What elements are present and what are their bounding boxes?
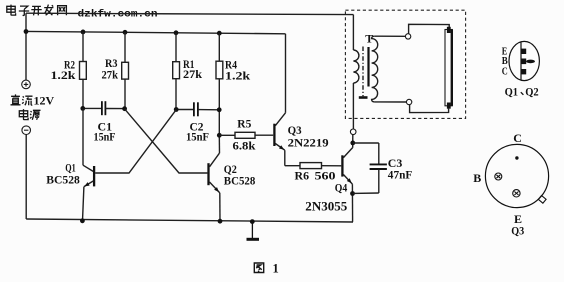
svg-text:15nF: 15nF	[94, 130, 116, 144]
transformer core shield bar	[359, 96, 368, 99]
transformer core dash-dot line	[362, 47, 364, 97]
svg-text:R5: R5	[237, 117, 251, 131]
transformer primary winding	[353, 15, 359, 129]
transistor Q2 (BC528, faces right)	[209, 135, 256, 221]
terminal secondary top	[405, 34, 410, 39]
wire supply vertical bottom	[25, 135, 27, 220]
svg-text:47nF: 47nF	[388, 167, 413, 181]
caption 图 1	[254, 263, 263, 273]
node rail left corner	[24, 29, 29, 34]
svg-text:1: 1	[273, 261, 279, 275]
resistor R2	[51, 32, 87, 109]
svg-text:27k: 27k	[183, 67, 202, 81]
node C1 right	[122, 106, 127, 111]
terminal primary bottom	[350, 129, 356, 135]
TO-3 collector dot	[515, 156, 518, 159]
node ground tap	[250, 219, 255, 224]
svg-text:2N3055: 2N3055	[305, 200, 347, 214]
TO-3 base pin	[495, 173, 502, 180]
dashed transformer box	[345, 10, 465, 118]
svg-text:560: 560	[315, 169, 336, 183]
node C3 top tap	[350, 141, 355, 146]
svg-text:12V: 12V	[34, 94, 55, 108]
wire supply vertical top	[25, 13, 27, 80]
resistor R3	[102, 32, 129, 108]
svg-text:C: C	[513, 131, 522, 145]
battery minus terminal	[22, 126, 31, 135]
svg-text:1.2k: 1.2k	[225, 68, 251, 82]
wire transformer primary bottom to Q4 collector	[352, 135, 354, 148]
svg-text:1.2k: 1.2k	[51, 68, 76, 82]
battery plus terminal	[22, 80, 31, 89]
TO-3 emitter pin	[513, 190, 520, 197]
node C3 bottom tap	[350, 191, 355, 196]
svg-text:B: B	[473, 171, 481, 185]
terminal secondary bottom	[406, 99, 411, 104]
node rail R3	[123, 30, 128, 35]
wire cross-coupling C1right to Q2 base	[125, 109, 208, 173]
node C2 right	[217, 107, 222, 112]
wire top feed line (through watermark) to transformer	[26, 13, 353, 14]
transformer core solid bar	[367, 47, 369, 87]
svg-text:Q3: Q3	[511, 223, 524, 237]
capacitor C1	[83, 101, 125, 143]
transistor Q4 (2N3055)	[305, 148, 352, 222]
svg-text:C: C	[502, 66, 508, 78]
pinout TO-3 Q3	[485, 144, 548, 207]
capacitor C2	[176, 102, 219, 143]
pinout TO-92 Q1 Q2	[509, 41, 539, 80]
svg-text:15nF: 15nF	[186, 130, 209, 144]
node rail R2	[81, 30, 86, 35]
lamp tube	[445, 27, 452, 109]
TO-92 pins	[521, 49, 535, 75]
svg-text:6.8k: 6.8k	[233, 138, 256, 152]
capacitor C3	[353, 143, 413, 193]
top rail	[26, 31, 286, 33]
node rail R1	[174, 30, 179, 35]
svg-text:Q1: Q1	[505, 85, 518, 99]
node C2 left	[174, 107, 179, 112]
resistor R4	[216, 33, 251, 135]
resistor R5	[219, 117, 273, 153]
node rail R4	[217, 31, 222, 36]
svg-text:BC528: BC528	[46, 172, 80, 186]
transistor Q3 (2N2219)	[274, 34, 328, 166]
svg-text:R6: R6	[295, 169, 310, 183]
label 直流12V	[11, 94, 33, 105]
svg-text:27k: 27k	[102, 67, 119, 81]
svg-text:Q2: Q2	[525, 85, 539, 99]
node R5 tap	[217, 133, 222, 138]
node Q2 emitter at rail	[218, 219, 223, 224]
label 电源	[19, 109, 40, 120]
transistor Q1 (BC528, faces left)	[46, 108, 94, 220]
wire cross-coupling C2left to Q1 base	[95, 110, 176, 173]
node Q1 emitter at rail	[80, 218, 85, 223]
watermark 电子开发网	[7, 5, 67, 16]
wire lamp bottom	[410, 105, 449, 113]
svg-text:2N2219: 2N2219	[288, 135, 329, 149]
svg-text:Q4: Q4	[335, 180, 348, 194]
wire lamp top	[409, 24, 450, 34]
node C1 left	[80, 106, 85, 111]
resistor R1	[173, 33, 203, 110]
bottom rail	[26, 219, 353, 222]
transformer secondary winding	[372, 36, 407, 102]
svg-text:BC528: BC528	[224, 173, 256, 187]
ground	[247, 222, 260, 240]
resistor R6	[285, 163, 342, 183]
